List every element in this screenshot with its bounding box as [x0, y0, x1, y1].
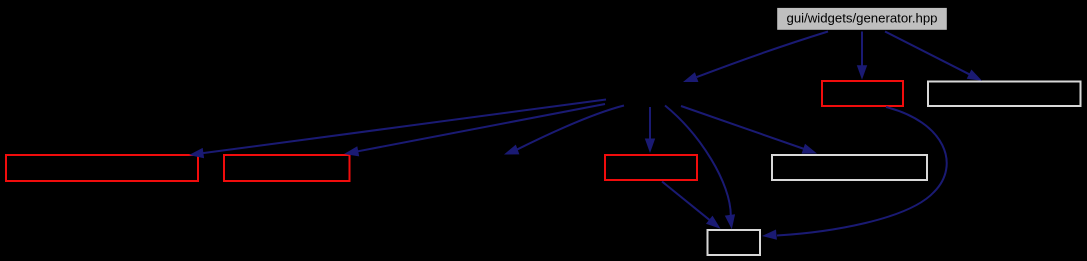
- svg-text:gui/widgets/generator.hpp: gui/widgets/generator.hpp: [786, 10, 937, 25]
